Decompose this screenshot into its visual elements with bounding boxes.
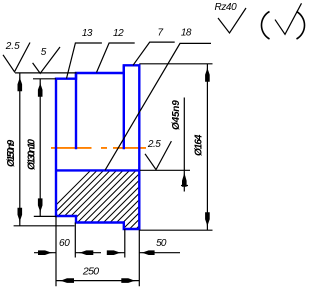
svg-text:250: 250 bbox=[82, 266, 99, 278]
svg-text:5: 5 bbox=[41, 47, 47, 58]
svg-text:Ø45n9: Ø45n9 bbox=[171, 100, 182, 130]
svg-text:60: 60 bbox=[59, 238, 70, 249]
svg-text:13: 13 bbox=[82, 28, 93, 39]
svg-text:7: 7 bbox=[158, 28, 164, 39]
svg-text:Ø150n9: Ø150n9 bbox=[6, 139, 17, 167]
svg-text:12: 12 bbox=[113, 28, 124, 39]
svg-text:Ø130n10: Ø130n10 bbox=[27, 139, 38, 170]
svg-text:Rz40: Rz40 bbox=[215, 2, 238, 13]
svg-text:18: 18 bbox=[181, 28, 192, 39]
svg-text:2.5: 2.5 bbox=[5, 41, 20, 52]
svg-text:Ø164: Ø164 bbox=[194, 134, 205, 156]
svg-text:2.5: 2.5 bbox=[147, 139, 161, 150]
svg-text:50: 50 bbox=[156, 238, 167, 249]
